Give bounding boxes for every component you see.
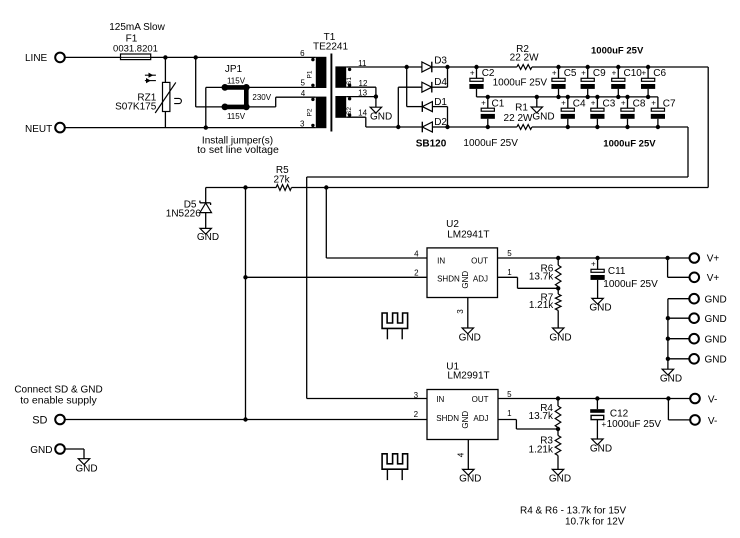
svg-text:+: + (481, 99, 486, 108)
svg-text:+: + (470, 69, 475, 78)
svg-text:D3: D3 (434, 56, 447, 67)
svg-text:V+: V+ (707, 273, 720, 284)
svg-text:1: 1 (507, 409, 512, 418)
svg-text:1000uF 25V: 1000uF 25V (591, 46, 644, 57)
svg-text:+: + (651, 99, 656, 108)
svg-text:GND: GND (459, 474, 481, 485)
svg-text:C8: C8 (633, 99, 646, 110)
svg-text:1.21k: 1.21k (529, 300, 554, 311)
svg-text:NEUT: NEUT (25, 124, 52, 135)
svg-text:115V: 115V (227, 76, 246, 85)
svg-text:+: + (581, 69, 586, 78)
svg-text:1000uF 25V: 1000uF 25V (603, 138, 656, 149)
svg-text:2: 2 (414, 410, 419, 419)
svg-text:C10: C10 (624, 68, 643, 79)
svg-text:GND: GND (197, 232, 219, 243)
svg-text:LM2941T: LM2941T (447, 229, 489, 240)
svg-text:5: 5 (507, 249, 512, 258)
svg-text:S1: S1 (346, 77, 353, 85)
svg-text:+: + (591, 99, 596, 108)
svg-text:+: + (591, 260, 596, 269)
svg-text:2: 2 (414, 268, 419, 277)
svg-text:SHDN: SHDN (436, 414, 459, 423)
svg-text:115V: 115V (227, 112, 246, 121)
svg-text:ADJ: ADJ (473, 414, 488, 423)
svg-text:+: + (621, 99, 626, 108)
svg-text:GND: GND (705, 334, 727, 345)
svg-text:1.21k: 1.21k (529, 444, 554, 455)
svg-text:14: 14 (358, 108, 367, 117)
svg-text:LINE: LINE (25, 53, 48, 64)
svg-text:GND: GND (459, 332, 481, 343)
svg-text:4: 4 (457, 452, 466, 457)
svg-text:GND: GND (549, 333, 571, 344)
svg-text:13.7k: 13.7k (529, 411, 554, 422)
svg-text:GND: GND (461, 271, 470, 289)
svg-text:5: 5 (300, 78, 305, 87)
svg-text:to set line voltage: to set line voltage (197, 144, 279, 156)
svg-text:TE2241: TE2241 (313, 42, 348, 53)
svg-text:SHDN: SHDN (437, 275, 460, 284)
svg-text:C7: C7 (663, 99, 676, 110)
svg-text:+: + (612, 69, 617, 78)
svg-text:+: + (552, 69, 557, 78)
svg-text:S07K175: S07K175 (115, 102, 157, 113)
svg-text:1N5226: 1N5226 (166, 209, 201, 220)
svg-text:+: + (641, 69, 646, 78)
svg-text:C3: C3 (603, 99, 616, 110)
svg-text:C6: C6 (653, 68, 666, 79)
svg-text:ADJ: ADJ (473, 275, 488, 284)
svg-text:10.7k for 12V: 10.7k for 12V (565, 517, 625, 528)
svg-text:OUT: OUT (472, 395, 489, 404)
svg-text:4: 4 (301, 89, 306, 98)
svg-text:GND: GND (461, 411, 470, 429)
svg-text:1000uF 25V: 1000uF 25V (493, 77, 548, 88)
svg-text:1000uF 25V: 1000uF 25V (463, 138, 518, 149)
svg-text:GND: GND (75, 464, 97, 475)
svg-text:GND: GND (589, 303, 611, 314)
svg-text:GND: GND (705, 354, 727, 365)
svg-text:LM2991T: LM2991T (447, 371, 489, 382)
svg-text:V+: V+ (707, 254, 720, 265)
svg-text:OUT: OUT (471, 256, 488, 265)
svg-text:5: 5 (507, 390, 512, 399)
svg-text:S2: S2 (346, 107, 353, 115)
svg-text:C5: C5 (564, 68, 577, 79)
svg-text:IN: IN (437, 256, 445, 265)
svg-text:3: 3 (300, 119, 305, 128)
svg-text:SB120: SB120 (416, 139, 447, 150)
svg-text:JP1: JP1 (225, 64, 243, 75)
svg-text:C4: C4 (573, 99, 586, 110)
svg-text:+: + (561, 99, 566, 108)
svg-text:C11: C11 (608, 266, 626, 277)
svg-text:P2: P2 (307, 108, 314, 116)
svg-text:GND: GND (705, 294, 727, 305)
svg-text:6: 6 (300, 49, 305, 58)
svg-text:4: 4 (414, 249, 419, 258)
svg-text:125mA Slow: 125mA Slow (109, 22, 165, 33)
svg-text:GND: GND (590, 444, 612, 455)
svg-text:V-: V- (708, 416, 717, 427)
svg-text:C1: C1 (492, 99, 505, 110)
svg-text:3: 3 (456, 309, 465, 314)
svg-text:230V: 230V (252, 93, 271, 102)
svg-text:C12: C12 (610, 408, 629, 419)
svg-text:22 2W: 22 2W (504, 113, 533, 124)
svg-text:SD: SD (32, 415, 47, 427)
svg-text:1000uF 25V: 1000uF 25V (603, 279, 658, 290)
svg-text:P1: P1 (307, 70, 314, 78)
svg-text:0031.8201: 0031.8201 (113, 44, 158, 55)
svg-text:1: 1 (507, 268, 512, 277)
svg-text:to enable supply: to enable supply (20, 394, 97, 406)
svg-text:13.7k: 13.7k (529, 272, 554, 283)
svg-text:GND: GND (30, 445, 52, 456)
svg-text:3: 3 (414, 391, 419, 400)
svg-text:IN: IN (436, 395, 444, 404)
svg-text:GND: GND (549, 474, 571, 485)
svg-text:1000uF 25V: 1000uF 25V (607, 419, 662, 430)
svg-text:GND: GND (370, 111, 392, 122)
svg-text:GND: GND (532, 112, 554, 123)
svg-text:R4 & R6 - 13.7k for 15V: R4 & R6 - 13.7k for 15V (520, 506, 626, 517)
svg-text:22 2W: 22 2W (510, 52, 539, 63)
svg-text:V-: V- (708, 395, 717, 406)
svg-text:C9: C9 (593, 68, 606, 79)
svg-text:GND: GND (660, 373, 682, 384)
svg-text:27k: 27k (274, 174, 291, 185)
svg-text:GND: GND (705, 314, 727, 325)
